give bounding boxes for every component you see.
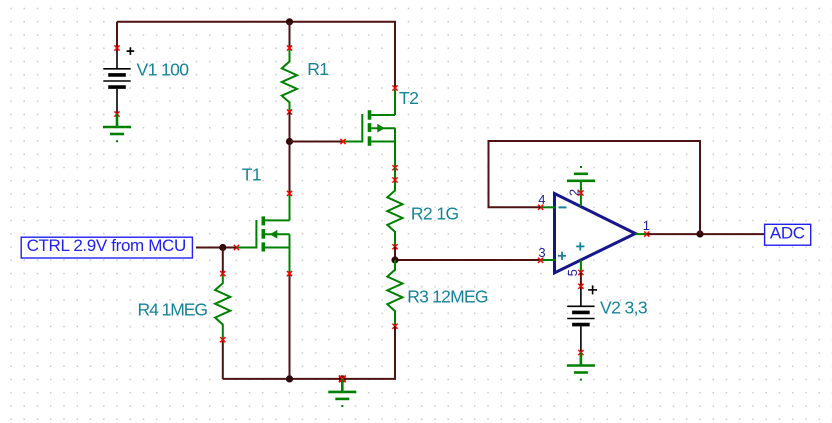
pin marker op-amp pin 3 <box>538 258 543 263</box>
pin marker V1 minus <box>114 111 119 116</box>
resistor R1 <box>282 48 297 112</box>
node top rail / R1 junction <box>286 18 293 25</box>
svg-text:3: 3 <box>538 245 545 260</box>
op-amp plus input mark <box>558 252 566 260</box>
ground GND1 below V1 <box>103 114 131 142</box>
pin marker op-amp pin 4 <box>538 205 543 210</box>
V1 plus polarity marker <box>127 47 135 55</box>
pin marker op-amp pin 2 <box>578 190 583 195</box>
wire V1 plus to top rail <box>116 22 118 48</box>
pin marker V2 minus <box>578 350 583 355</box>
wire T2 source to R2 <box>394 168 396 180</box>
svg-text:CTRL 2.9V from MCU: CTRL 2.9V from MCU <box>27 236 186 255</box>
op-amp pin 1 stub <box>635 233 647 235</box>
svg-text:R4 1MEG: R4 1MEG <box>138 300 208 320</box>
transistor T2 <box>343 88 395 168</box>
pin marker T2 source <box>392 165 397 170</box>
net label CTRL box <box>21 237 192 258</box>
wire top rail from V1 to T2 drain <box>117 22 395 88</box>
wire junction to R4 <box>222 248 224 274</box>
svg-text:V2 3,3: V2 3,3 <box>600 298 647 318</box>
op-amp minus input mark <box>559 206 567 208</box>
svg-text:4: 4 <box>538 192 545 207</box>
pin marker R1 bottom <box>287 109 292 114</box>
pin marker T1 source <box>287 271 292 276</box>
node R2 R3 op-amp junction <box>391 256 398 263</box>
pin marker V2 plus <box>578 284 583 289</box>
node CTRL / R4 junction <box>219 244 226 251</box>
wire R4 to bottom rail <box>222 340 224 379</box>
pin marker R1 top <box>287 45 292 50</box>
pin marker ground junction <box>339 376 346 383</box>
voltage source V1 <box>103 48 130 114</box>
node T1 source / bottom rail <box>286 375 293 382</box>
op-amp U1 triangle <box>555 194 636 273</box>
transistor T1 <box>236 193 289 273</box>
pin marker R2 top <box>392 177 397 182</box>
svg-text:1: 1 <box>643 218 650 233</box>
pin marker R2 bottom <box>392 244 397 249</box>
resistor R2 <box>387 180 402 247</box>
wire CTRL to T1 gate <box>196 247 236 249</box>
voltage source V2 <box>567 286 594 352</box>
pin marker op-amp pin 1 <box>644 232 649 237</box>
node output / feedback junction <box>696 230 703 237</box>
svg-text:R1: R1 <box>307 59 328 79</box>
wire op-amp output to ADC <box>647 233 765 235</box>
pin marker R4 top <box>220 271 225 276</box>
op-amp pin 3 stub <box>541 259 556 261</box>
svg-text:T2: T2 <box>399 88 418 108</box>
ground GND4 above op-amp pin 2 <box>567 166 595 181</box>
pin marker op-amp pin 5 <box>578 270 583 275</box>
V2 plus polarity marker <box>588 285 597 294</box>
pin marker T2 drain <box>392 85 397 90</box>
ground GND3 below V2 <box>567 353 595 381</box>
resistor R3 <box>387 260 402 326</box>
ground GND2 on bottom rail <box>328 379 356 407</box>
wire R1 bottom to T1 drain <box>289 112 291 193</box>
pin marker R3 bottom <box>392 324 397 329</box>
svg-text:V1 100: V1 100 <box>137 59 190 79</box>
node R1 / T2 gate junction <box>286 138 293 145</box>
op-amp pin 2 stub <box>580 181 582 206</box>
pin marker T1 drain <box>287 191 292 196</box>
wire R3 to bottom rail <box>223 326 395 379</box>
svg-text:ADC: ADC <box>770 223 805 242</box>
svg-text:R3 12MEG: R3 12MEG <box>407 286 488 306</box>
op-amp plus supply mark <box>576 242 584 250</box>
wire R2 bottom to node <box>394 247 396 260</box>
pin marker V1 plus <box>114 45 119 50</box>
wire junction to T2 gate <box>290 141 344 143</box>
pin marker T2 gate <box>340 139 345 144</box>
wire T1 source to bottom rail <box>289 274 291 379</box>
pin marker R4 bottom <box>220 337 225 342</box>
wire node to op-amp pin 3 <box>395 259 541 261</box>
feedback wire output to pin 4 <box>489 141 701 234</box>
pin marker T1 gate <box>234 245 239 250</box>
op-amp pin 5 stub <box>580 260 582 273</box>
svg-text:R2 1G: R2 1G <box>411 204 459 224</box>
op-amp pin 4 stub <box>541 206 556 208</box>
net label ADC box <box>765 224 811 245</box>
node ground / bottom rail <box>339 375 346 382</box>
wire op-amp pin5 to V2 <box>580 273 582 287</box>
resistor R4 <box>215 274 230 340</box>
wire top rail to R1 <box>289 22 291 48</box>
svg-text:T1: T1 <box>242 164 261 184</box>
svg-text:5: 5 <box>565 269 580 276</box>
